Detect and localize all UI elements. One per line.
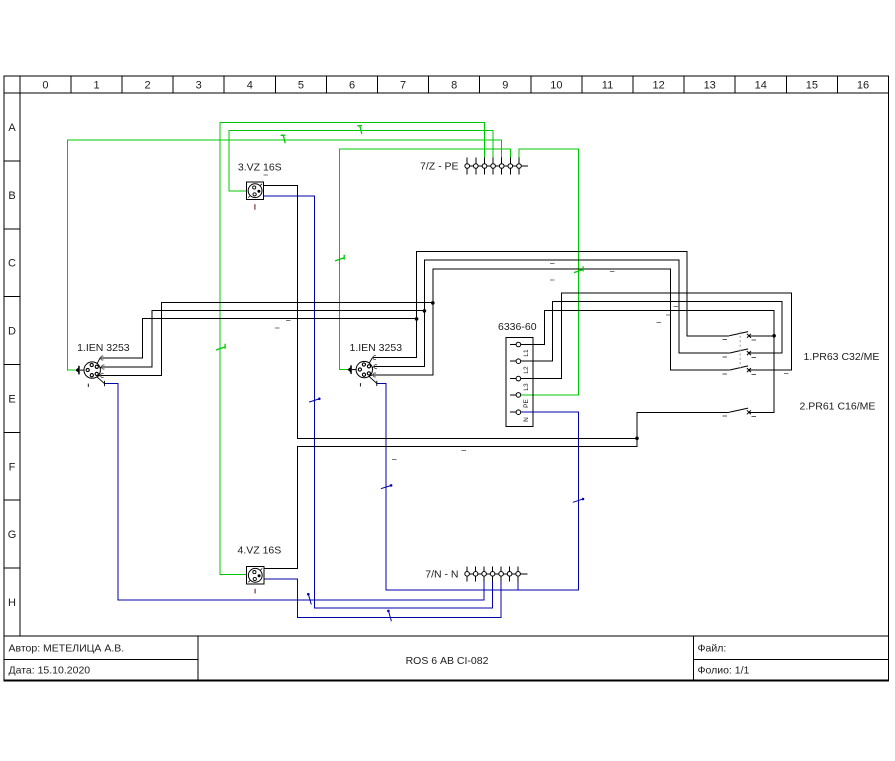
svg-text:11: 11 <box>602 80 613 92</box>
svg-text:G: G <box>8 529 17 541</box>
svg-text:13: 13 <box>704 80 716 92</box>
svg-text:15: 15 <box>806 80 818 92</box>
svg-text:8: 8 <box>451 80 457 92</box>
svg-text:3: 3 <box>196 80 202 92</box>
svg-text:E: E <box>8 393 15 405</box>
svg-text:12: 12 <box>652 80 664 92</box>
svg-text:Дата: 15.10.2020: Дата: 15.10.2020 <box>9 665 91 677</box>
svg-text:2: 2 <box>145 80 151 92</box>
svg-text:D: D <box>8 326 16 338</box>
svg-text:ROS 6 АВ CI-082: ROS 6 АВ CI-082 <box>406 655 489 667</box>
svg-text:7: 7 <box>400 80 406 92</box>
svg-text:Автор: МЕТЕЛИЦА А.В.: Автор: МЕТЕЛИЦА А.В. <box>9 643 125 655</box>
svg-text:1: 1 <box>93 80 99 92</box>
svg-text:Файл:: Файл: <box>698 643 727 655</box>
svg-text:14: 14 <box>755 80 767 92</box>
svg-text:A: A <box>8 122 16 134</box>
svg-text:1.IEN 3253: 1.IEN 3253 <box>350 342 403 354</box>
svg-text:6336-60: 6336-60 <box>498 321 537 333</box>
svg-text:PE: PE <box>523 399 530 408</box>
svg-text:7/Z - PE: 7/Z - PE <box>420 161 459 173</box>
svg-text:C: C <box>8 258 16 270</box>
svg-text:3.VZ 16S: 3.VZ 16S <box>238 162 282 174</box>
svg-text:1.PR63 C32/ME: 1.PR63 C32/ME <box>804 351 880 363</box>
svg-text:4.VZ 16S: 4.VZ 16S <box>238 545 282 557</box>
svg-text:2.PR61 C16/ME: 2.PR61 C16/ME <box>800 401 876 413</box>
svg-text:Фолио: 1/1: Фолио: 1/1 <box>698 665 750 677</box>
svg-text:L3: L3 <box>523 383 530 391</box>
svg-text:5: 5 <box>298 80 304 92</box>
svg-text:0: 0 <box>42 80 48 92</box>
svg-text:7/N - N: 7/N - N <box>425 569 458 581</box>
svg-text:L1: L1 <box>523 349 530 357</box>
svg-text:B: B <box>8 190 15 202</box>
svg-text:6: 6 <box>349 80 355 92</box>
svg-text:16: 16 <box>857 80 869 92</box>
svg-text:4: 4 <box>247 80 253 92</box>
svg-text:9: 9 <box>502 80 508 92</box>
svg-text:10: 10 <box>550 80 562 92</box>
svg-text:F: F <box>9 461 16 473</box>
svg-text:1.IEN 3253: 1.IEN 3253 <box>77 342 130 354</box>
svg-text:L2: L2 <box>523 366 530 374</box>
svg-text:N: N <box>523 417 530 422</box>
svg-text:H: H <box>8 597 16 609</box>
